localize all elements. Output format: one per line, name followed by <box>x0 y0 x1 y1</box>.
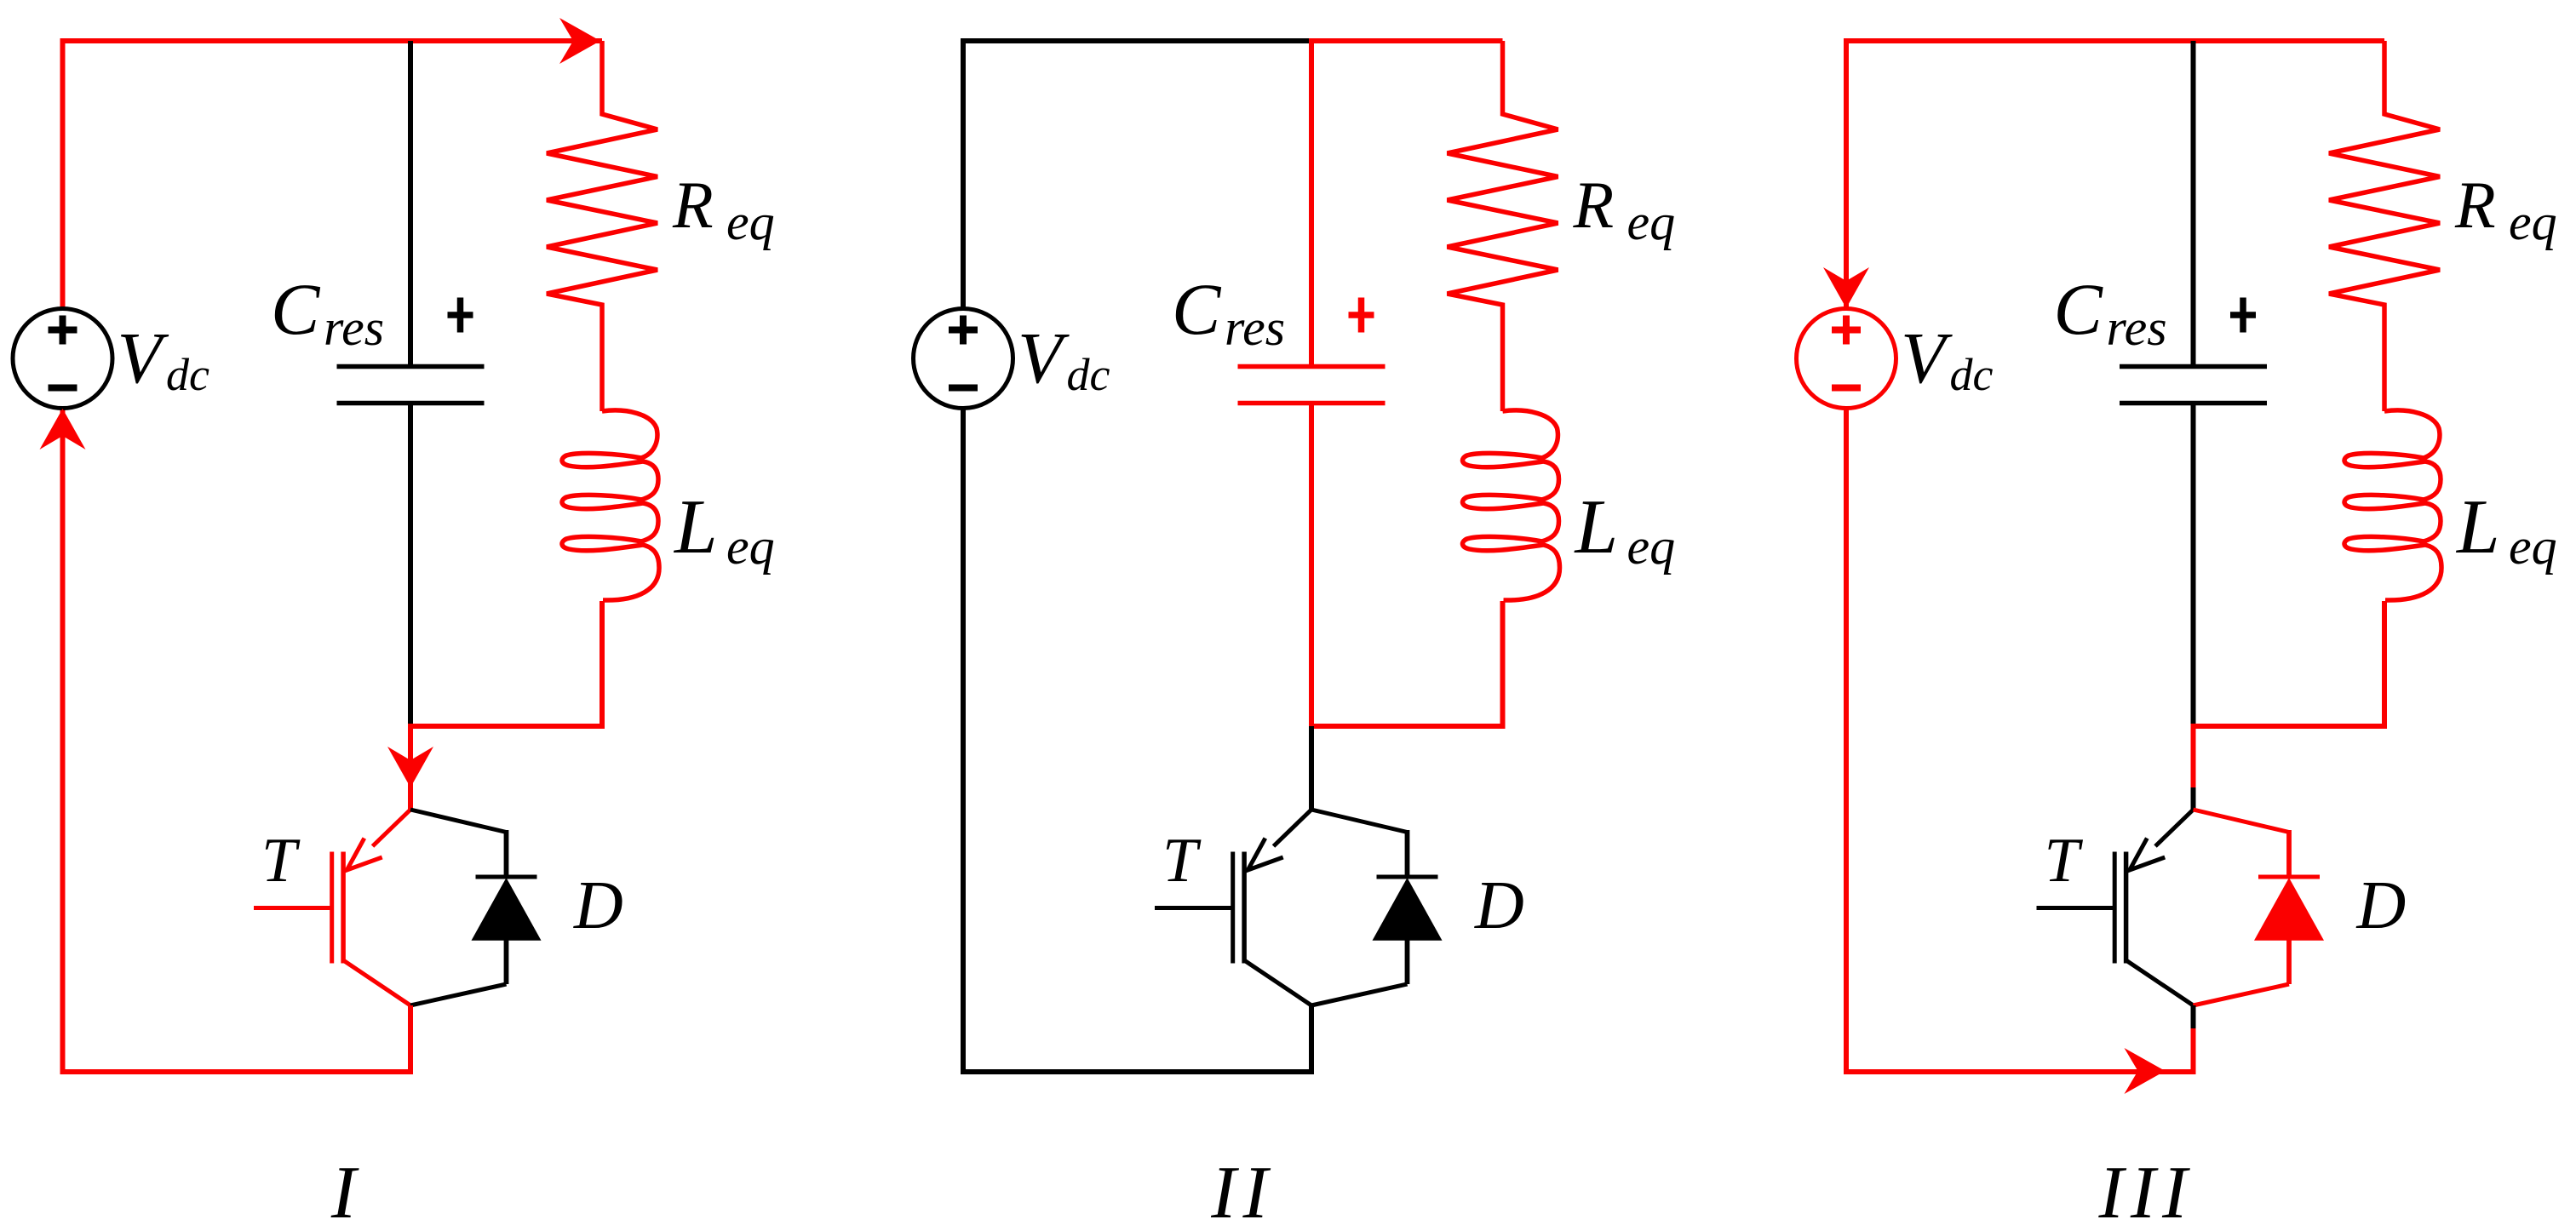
wire left rail lower (III) <box>1844 409 1849 1073</box>
plus polarity mark near capacitor (III) <box>2230 298 2256 333</box>
transistor T (II) body bar <box>1242 852 1247 964</box>
wire top rail (III) <box>1846 38 2384 43</box>
wire I top plate lead <box>408 41 413 364</box>
wire emitter lead upper (III) <box>2191 1005 2196 1028</box>
svg-text:V: V <box>118 317 169 398</box>
inductor Leq (I) <box>562 410 659 600</box>
resistor Req (III) <box>2329 41 2440 411</box>
svg-text:dc: dc <box>1067 349 1110 400</box>
svg-text:V: V <box>1901 317 1953 398</box>
transistor T (I) gate bar <box>330 852 334 964</box>
svg-text:L: L <box>2455 484 2500 570</box>
current arrow into source minus (I) <box>40 409 86 449</box>
svg-text:D: D <box>1474 868 1524 943</box>
wire I gate lead <box>254 906 332 910</box>
diode D (III) anode lead <box>2286 940 2292 984</box>
svg-text:eq: eq <box>2509 194 2557 250</box>
II minus terminal mark <box>949 385 978 392</box>
transistor T (III) gate bar <box>2113 852 2117 964</box>
svg-text:T: T <box>261 826 301 896</box>
svg-text:C: C <box>1172 268 1222 350</box>
svg-text:T: T <box>1162 826 1202 896</box>
transistor T (II) gate bar <box>1231 852 1235 964</box>
wire left rail upper (II) <box>961 38 966 309</box>
wire inductor bottom lead (II) <box>1500 601 1506 729</box>
diode D (II) anode diagonal from collector node <box>1311 810 1408 833</box>
diode D (III) cathode lead <box>2286 830 2292 877</box>
svg-text:D: D <box>573 868 623 943</box>
svg-text:eq: eq <box>1627 518 1676 575</box>
diode D (II) triangle <box>1373 878 1443 941</box>
svg-text:C: C <box>2054 268 2104 350</box>
diode D (I) diagonal to emitter node <box>410 984 507 1005</box>
resistor Req (II) <box>1448 41 1558 411</box>
transistor T (II) open arrowhead <box>1248 839 1282 870</box>
capacitor II top plate <box>1238 364 1386 369</box>
svg-text:L: L <box>673 484 718 570</box>
wire I bottom plate lead <box>408 405 413 726</box>
I plus terminal mark <box>49 316 77 345</box>
current arrow on top rail (I) <box>559 18 600 64</box>
svg-text:eq: eq <box>726 194 775 250</box>
wire mid horizontal connector (III) <box>2191 724 2388 729</box>
svg-text:res: res <box>1225 300 1285 356</box>
transistor T (I) open arrowhead <box>347 839 382 870</box>
wire left rail lower (II) <box>961 409 966 1073</box>
wire II bottom plate lead <box>1309 405 1314 726</box>
wire left rail upper (III) <box>1844 38 1849 309</box>
wire collector lead lower (II) <box>1309 787 1314 811</box>
current arrow into source plus (III) <box>1823 267 1869 308</box>
svg-text:II: II <box>1210 1152 1275 1231</box>
diode D (II) cathode bar <box>1377 875 1438 879</box>
wire collector lead upper (I) <box>408 726 413 787</box>
wire bottom rail (I) <box>60 1069 414 1074</box>
capacitor III bottom plate <box>2120 401 2267 406</box>
wire mid horizontal connector (I) <box>408 724 605 729</box>
svg-text:eq: eq <box>2509 518 2557 575</box>
III minus terminal mark <box>1832 385 1861 392</box>
inductor Leq (II) <box>1462 410 1559 600</box>
wire emitter lead upper (I) <box>408 1005 413 1028</box>
wire III gate lead <box>2037 906 2115 910</box>
wire collector lead lower (I) <box>408 787 413 811</box>
svg-text:V: V <box>1018 317 1070 398</box>
svg-text:eq: eq <box>726 518 775 575</box>
wire left rail lower (I) <box>60 409 66 1073</box>
capacitor II bottom plate <box>1238 401 1386 406</box>
wire collector lead upper (II) <box>1309 726 1314 787</box>
wire emitter lead lower (II) <box>1309 1028 1314 1074</box>
resistor Req (I) <box>547 41 657 411</box>
voltage source II circle <box>914 309 1013 409</box>
diode D (II) cathode lead <box>1405 830 1410 877</box>
wire inductor bottom lead (III) <box>2382 601 2387 729</box>
wire collector lead lower (III) <box>2191 787 2196 811</box>
diode D (II) diagonal to emitter node <box>1311 984 1408 1005</box>
transistor T (I) collector diagonal <box>373 810 411 846</box>
svg-text:C: C <box>271 268 321 350</box>
svg-text:III: III <box>2098 1152 2194 1231</box>
current arrow on bottom rail (III) <box>2125 1048 2166 1094</box>
voltage source I circle <box>13 309 112 409</box>
I minus terminal mark <box>49 385 77 392</box>
wire left rail upper (I) <box>60 38 66 309</box>
diode D (I) cathode lead <box>504 830 509 877</box>
wire bottom rail (II) <box>961 1069 1314 1074</box>
current arrow on collector lead (I) <box>387 747 433 787</box>
svg-text:L: L <box>1574 484 1619 570</box>
svg-text:R: R <box>2454 168 2496 242</box>
svg-text:dc: dc <box>1950 349 1994 400</box>
diode D (II) anode lead <box>1405 940 1410 984</box>
diode D (III) anode diagonal from collector node <box>2194 810 2290 833</box>
wire bottom rail (III) <box>1844 1069 2196 1074</box>
inductor Leq (III) <box>2344 410 2441 600</box>
svg-text:res: res <box>2107 300 2167 356</box>
transistor T (III) open arrowhead <box>2130 839 2165 870</box>
transistor T (I) body bar <box>341 852 346 964</box>
wire III bottom plate lead <box>2191 405 2196 726</box>
svg-text:dc: dc <box>166 349 209 400</box>
II plus terminal mark <box>949 316 978 345</box>
wire emitter lead upper (II) <box>1309 1005 1314 1028</box>
wire emitter lead lower (III) <box>2191 1028 2196 1074</box>
capacitor III top plate <box>2120 364 2267 369</box>
svg-text:R: R <box>672 168 714 242</box>
svg-text:R: R <box>1573 168 1615 242</box>
capacitor I top plate <box>337 364 485 369</box>
transistor T (II) emitter diagonal <box>1244 960 1311 1005</box>
wire emitter lead lower (I) <box>408 1028 413 1074</box>
transistor T (III) collector diagonal <box>2155 810 2194 846</box>
voltage source III circle <box>1797 309 1896 409</box>
III plus terminal mark <box>1832 316 1861 345</box>
wire collector lead upper (III) <box>2191 726 2196 787</box>
diode D (I) anode lead <box>504 940 509 984</box>
wire inductor bottom lead (I) <box>600 601 605 729</box>
svg-text:D: D <box>2356 868 2407 943</box>
wire mid horizontal connector (II) <box>1309 724 1506 729</box>
svg-text:eq: eq <box>1627 194 1676 250</box>
transistor T (III) emitter diagonal <box>2126 960 2194 1005</box>
diode D (I) cathode bar <box>476 875 537 879</box>
transistor T (I) emitter diagonal <box>343 960 410 1005</box>
diode D (III) triangle <box>2254 878 2324 941</box>
wire top rail (I) <box>63 38 603 43</box>
wire top rail right segment (II) <box>1309 38 1503 43</box>
wire II gate lead <box>1155 906 1233 910</box>
diode D (I) anode diagonal from collector node <box>410 810 507 833</box>
svg-text:res: res <box>324 300 384 356</box>
wire III top plate lead <box>2191 41 2196 364</box>
svg-text:T: T <box>2045 826 2084 896</box>
wire top rail left segment (II) <box>963 38 1311 43</box>
capacitor I bottom plate <box>337 401 485 406</box>
transistor T (II) collector diagonal <box>1274 810 1312 846</box>
diode D (III) diagonal to emitter node <box>2194 984 2290 1005</box>
diode D (III) cathode bar <box>2258 875 2320 879</box>
plus polarity mark near capacitor (I) <box>448 298 473 333</box>
transistor T (III) body bar <box>2124 852 2129 964</box>
diode D (I) triangle <box>472 878 542 941</box>
wire II top plate lead <box>1309 41 1314 364</box>
svg-text:I: I <box>330 1152 359 1231</box>
plus polarity mark near capacitor (II) <box>1349 298 1374 333</box>
